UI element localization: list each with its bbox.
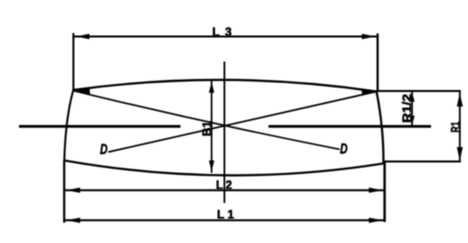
arrow R1 up [457, 93, 463, 107]
lens top surface arc [73, 80, 376, 92]
extension line right top (radius dims) [377, 90, 461, 92]
arrow L3 right [362, 34, 376, 39]
arrow at top-right corner [361, 89, 376, 96]
extension line top-left [72, 33, 74, 91]
arrow L1 left [67, 218, 81, 223]
lens bottom surface arc [64, 160, 383, 175]
horizontal centerline left dash [19, 125, 181, 128]
dimension line L2 [64, 189, 385, 191]
dimension line L1 [64, 219, 385, 221]
svg-text:L1: L1 [217, 207, 234, 221]
svg-text:B1: B1 [200, 121, 214, 136]
horizontal centerline right dash [269, 125, 432, 128]
lens right edge [377, 92, 384, 164]
vertical centerline [223, 62, 225, 204]
extension line right bottom (radius dims) [385, 161, 461, 163]
arrow center dim up [209, 82, 214, 93]
arrow L3 left [76, 34, 90, 39]
arrow L2 right [369, 188, 383, 193]
arrow R1/2 down [409, 116, 414, 126]
dimension line L3 [73, 36, 377, 38]
extension line top-right [377, 34, 379, 93]
lens left edge [64, 90, 73, 161]
svg-text:D: D [100, 141, 108, 157]
arrow R1/2 up [409, 92, 414, 102]
extension line bottom-right [383, 161, 385, 223]
dimension line R1 [459, 91, 461, 162]
arrow L1 right [369, 218, 383, 223]
arrow L2 left [67, 188, 81, 193]
diagonal radius line D (to top-left corner) [73, 91, 339, 150]
arrow center dim down [209, 161, 214, 172]
center thickness dimension line [211, 81, 213, 173]
svg-text:R1: R1 [448, 121, 462, 132]
diagonal radius line D (to top-right corner) [108, 92, 376, 153]
svg-text:R1/2: R1/2 [400, 94, 414, 123]
extension line bottom-left [63, 160, 65, 222]
arrow at top-left corner [74, 88, 91, 96]
svg-text:D: D [340, 141, 348, 157]
dimension line R1/2 [411, 91, 413, 126]
arrow R1 down [457, 147, 463, 161]
